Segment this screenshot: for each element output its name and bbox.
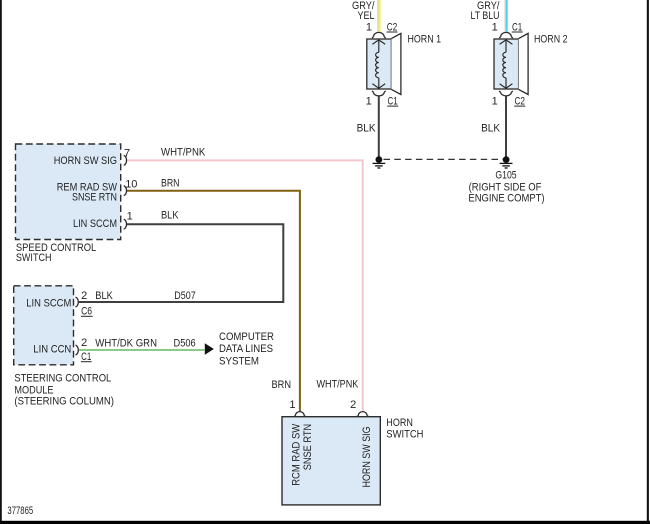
svg-text:MODULE: MODULE xyxy=(14,384,53,396)
svg-text:SNSE RTN: SNSE RTN xyxy=(302,424,314,470)
svg-text:STEERING CONTROL: STEERING CONTROL xyxy=(14,372,111,384)
svg-text:BLK: BLK xyxy=(95,290,113,302)
svg-text:2: 2 xyxy=(350,399,356,411)
svg-text:SWITCH: SWITCH xyxy=(386,428,423,440)
svg-text:HORN: HORN xyxy=(386,417,413,429)
svg-text:BRN: BRN xyxy=(272,379,292,391)
svg-text:WHT/PNK: WHT/PNK xyxy=(317,379,359,391)
svg-text:WHT/PNK: WHT/PNK xyxy=(161,147,206,159)
svg-text:C1: C1 xyxy=(81,351,91,363)
svg-text:D506: D506 xyxy=(174,338,196,350)
svg-text:RCM RAD SW: RCM RAD SW xyxy=(291,423,303,486)
svg-text:7: 7 xyxy=(124,148,130,160)
svg-text:SYSTEM: SYSTEM xyxy=(219,355,259,367)
svg-text:(STEERING COLUMN): (STEERING COLUMN) xyxy=(14,396,114,408)
svg-text:LIN SCCM: LIN SCCM xyxy=(26,297,71,309)
svg-text:C6: C6 xyxy=(81,306,92,318)
svg-text:HORN 1: HORN 1 xyxy=(408,33,442,45)
svg-text:HORN SW SIG: HORN SW SIG xyxy=(54,155,117,167)
svg-text:LIN SCCM: LIN SCCM xyxy=(73,218,117,230)
svg-text:BLK: BLK xyxy=(481,123,500,135)
svg-text:1: 1 xyxy=(289,399,295,411)
svg-text:WHT/DK GRN: WHT/DK GRN xyxy=(95,338,157,350)
svg-text:10: 10 xyxy=(125,178,137,190)
svg-text:SWITCH: SWITCH xyxy=(16,252,52,264)
svg-text:377865: 377865 xyxy=(7,505,33,517)
svg-text:HORN 2: HORN 2 xyxy=(534,33,568,45)
svg-text:1: 1 xyxy=(366,95,372,107)
svg-text:BLK: BLK xyxy=(161,210,179,222)
svg-text:1: 1 xyxy=(366,21,372,33)
svg-text:D507: D507 xyxy=(174,290,195,302)
svg-text:LIN CCN: LIN CCN xyxy=(33,344,71,356)
svg-text:SNSE RTN: SNSE RTN xyxy=(72,191,117,203)
svg-text:2: 2 xyxy=(81,290,87,302)
svg-text:1: 1 xyxy=(127,210,133,222)
svg-text:ENGINE COMPT): ENGINE COMPT) xyxy=(468,193,544,205)
svg-text:G105: G105 xyxy=(495,170,516,182)
svg-text:1: 1 xyxy=(492,95,498,107)
svg-text:COMPUTER: COMPUTER xyxy=(219,331,274,343)
svg-text:1: 1 xyxy=(492,21,498,33)
svg-text:BRN: BRN xyxy=(161,177,180,189)
svg-text:BLK: BLK xyxy=(357,123,376,135)
svg-text:DATA LINES: DATA LINES xyxy=(219,343,273,355)
svg-text:HORN SW SIG: HORN SW SIG xyxy=(361,426,373,487)
svg-text:2: 2 xyxy=(81,337,87,349)
